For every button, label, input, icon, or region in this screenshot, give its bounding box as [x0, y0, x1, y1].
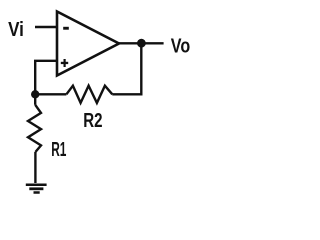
ground [26, 185, 47, 193]
svg-text:R2: R2 [83, 110, 102, 132]
wire node A down to R1 top terminal [34, 94, 36, 105]
wire R2 left terminal to node A [35, 93, 66, 95]
wire op-amp output to Vo terminal [118, 42, 164, 44]
wire R1 bottom terminal to ground [34, 152, 36, 183]
resistor R1 [28, 105, 41, 152]
minus sign at inverting input [63, 27, 69, 30]
svg-text:Vo: Vo [171, 35, 190, 57]
svg-text:R1: R1 [51, 139, 66, 161]
wire non-inverting input stub down to node A [35, 61, 57, 95]
wire feedback from output node down to R2 right terminal [112, 43, 141, 94]
wire Vi to inverting input [35, 26, 58, 28]
resistor R2 [66, 86, 112, 103]
output node junction dot [137, 39, 146, 48]
svg-text:Vi: Vi [8, 19, 24, 41]
op-amp U1 [57, 12, 119, 76]
node A junction dot [31, 90, 39, 98]
plus sign at non-inverting input [61, 59, 68, 67]
